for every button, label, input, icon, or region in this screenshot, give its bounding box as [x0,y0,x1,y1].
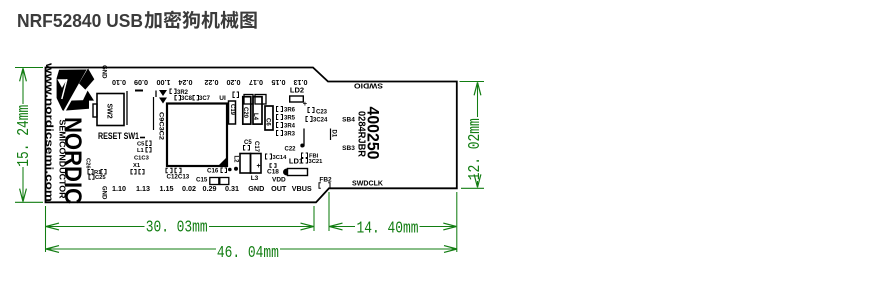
svg-text:15. 24mm: 15. 24mm [15,105,34,167]
logo Nordic Semiconductor left limb + band [57,70,89,111]
svg-text:SB4: SB4 [342,117,355,124]
svg-text:VDD: VDD [272,177,286,184]
svg-text:C16: C16 [207,168,219,175]
resistor R5 [277,115,283,120]
svg-text:1.10: 1.10 [112,184,126,193]
svg-text:www.nordicsemi.com: www.nordicsemi.com [43,62,55,202]
svg-text:3C24: 3C24 [313,118,328,124]
svg-text:GND: GND [101,65,107,79]
dimension 12.02mm right [460,81,485,83]
junction dot [234,167,238,171]
pad tick left of chip [155,91,157,98]
svg-text:SEMICONDUCTOR: SEMICONDUCTOR [58,120,68,199]
title text (chinese) [144,11,161,29]
logo white notch [57,79,67,88]
svg-text:VBUS: VBUS [292,184,312,193]
svg-text:3R3: 3R3 [284,132,296,138]
logo small triangle [83,91,94,101]
silk line left of chip [153,97,155,130]
svg-text:C15: C15 [196,177,208,184]
label C25 [89,175,94,180]
svg-text:C1C3: C1C3 [134,156,150,162]
svg-text:C12C13: C12C13 [167,173,190,180]
svg-text:0.22: 0.22 [205,78,219,87]
switch SW2 body [97,94,124,126]
chip U1 dot [228,168,232,172]
svg-text:SB3: SB3 [342,145,355,152]
svg-text:LD2: LD2 [290,86,304,95]
svg-text:46. 04mm: 46. 04mm [217,244,279,263]
svg-text:+: + [256,163,260,170]
silk line right of SW2 [126,91,128,125]
diode D1 (rotated, underlined) [330,129,332,141]
svg-text:0.20: 0.20 [227,78,241,87]
svg-text:0.09: 0.09 [134,78,148,87]
svg-text:C23: C23 [316,110,328,116]
svg-text:OUT: OUT [271,184,287,193]
svg-text:L3: L3 [251,175,259,182]
led LD2 body [290,96,304,102]
inductor L4 body [253,97,262,124]
logo bottom bar [63,100,89,111]
svg-text:D1: D1 [331,130,337,138]
svg-text:0.31: 0.31 [225,184,239,193]
svg-text:C25: C25 [95,175,106,181]
switch SW2 tab [93,104,97,117]
svg-text:3R4: 3R4 [284,124,296,130]
capacitor C21 [302,159,308,164]
capacitor C14 [266,154,272,159]
svg-text:SWDIO: SWDIO [354,81,383,90]
svg-text:C26: C26 [85,158,91,169]
resistor R6 [277,107,283,112]
dimension 30.03mm [45,206,47,252]
pads above chip [233,92,239,98]
resistor R3 [277,131,283,136]
resistor R4 [277,123,283,128]
svg-text:C17: C17 [253,141,259,153]
svg-text:RESET SW1: RESET SW1 [98,131,139,141]
svg-text:NRF52840 USB: NRF52840 USB [17,10,143,31]
svg-text:1.13: 1.13 [136,184,150,193]
svg-text:30. 03mm: 30. 03mm [146,218,208,237]
svg-text:0.29: 0.29 [203,184,217,193]
pad dash under 0.09 [135,90,143,92]
chip U1 body [167,104,227,167]
svg-text:1.00: 1.00 [157,78,171,87]
svg-text:0.10: 0.10 [112,78,126,87]
svg-text:0.24: 0.24 [179,78,193,87]
svg-text:C20: C20 [242,107,248,119]
svg-text:12. 02mm: 12. 02mm [466,118,485,180]
svg-text:GND: GND [101,186,107,200]
svg-text:3R5: 3R5 [284,116,296,122]
svg-text:+: + [303,99,308,108]
svg-text:C9C3C2: C9C3C2 [158,112,164,141]
ferrite FB1 [302,153,308,158]
svg-text:0284RJBR: 0284RJBR [356,111,367,158]
svg-text:GND: GND [248,184,264,193]
svg-text:14. 40mm: 14. 40mm [357,219,419,238]
junction dot [300,144,304,148]
capacitor C19 body [229,101,236,124]
svg-text:1.15: 1.15 [160,184,174,193]
inductor L3 body [240,154,251,174]
capacitor C20 body [243,97,251,124]
capacitor C6 body [265,106,273,130]
svg-text:C22: C22 [284,147,296,153]
pads below chip left [166,168,172,173]
svg-text:LD1: LD1 [289,157,303,166]
svg-text:3C7: 3C7 [199,96,211,102]
svg-text:0.15: 0.15 [272,78,286,87]
wire segment [303,129,305,147]
logo white slash mid [65,69,89,111]
svg-text:L1: L1 [137,148,145,154]
svg-text:C5: C5 [137,142,145,148]
svg-text:3R6: 3R6 [284,108,296,114]
label R1 [88,170,93,175]
svg-text:3C21: 3C21 [309,159,324,165]
chip U1 corner mark [219,158,227,166]
diode D2 marks [159,90,167,104]
dimension 15.24mm left [15,67,43,69]
dimension 46.04mm [47,248,217,250]
label C18 [270,164,276,167]
svg-text:L2: L2 [233,156,239,164]
svg-text:UI: UI [219,95,226,102]
capacitor C23 [308,108,314,113]
logo white slash left [62,79,67,99]
svg-text:SWDCLK: SWDCLK [352,179,384,188]
logo diamond [79,68,94,89]
capacitors C8 C7 labels [175,96,181,101]
svg-text:C19: C19 [229,104,235,116]
svg-text:0.02: 0.02 [182,184,196,193]
svg-text:3C14: 3C14 [273,155,288,161]
svg-text:3C8: 3C8 [181,96,193,102]
resistor R2 label [170,89,176,94]
svg-text:SW2: SW2 [106,104,113,119]
svg-text:C6: C6 [265,118,271,126]
pcb board outline [46,68,457,203]
dimension 14.40mm [328,192,330,231]
svg-text:L4: L4 [252,113,258,121]
led LD1 body [288,169,308,176]
svg-text:0.17: 0.17 [249,78,263,87]
capacitor C24 [306,117,312,122]
svg-text:X1: X1 [133,163,141,169]
svg-text:C18: C18 [267,169,279,176]
